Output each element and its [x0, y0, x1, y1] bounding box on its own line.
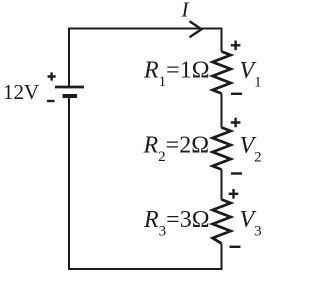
resistor R3: [213, 200, 231, 244]
current arrow head: [190, 21, 202, 37]
wire bottom: [68, 268, 223, 270]
minus sign below R2: [231, 172, 242, 174]
wire left upper: [68, 28, 70, 87]
svg-text:R1=1Ω: R1=1Ω: [143, 58, 210, 91]
svg-text:V1: V1: [240, 58, 262, 91]
resistor R1: [213, 52, 231, 94]
plus sign above R3: [229, 189, 239, 199]
wire top: [69, 28, 222, 30]
svg-text:R2=2Ω: R2=2Ω: [143, 133, 210, 166]
wire right segment R2-R3: [221, 170, 223, 200]
battery minus sign: [47, 100, 55, 102]
minus sign below R3: [230, 246, 241, 248]
wire right segment below R3: [221, 244, 223, 271]
minus sign below R1: [231, 93, 242, 95]
plus sign above R1: [231, 41, 241, 51]
svg-text:V3: V3: [240, 207, 262, 240]
wire right segment above R1: [221, 28, 223, 52]
svg-text:I: I: [181, 0, 190, 22]
wire right segment R1-R2: [221, 94, 223, 128]
plus sign above R2: [231, 118, 241, 128]
battery 12V negative plate: [63, 94, 78, 98]
svg-text:R3=3Ω: R3=3Ω: [143, 207, 210, 240]
wire left lower: [68, 98, 70, 271]
battery plus sign: [48, 72, 56, 80]
battery 12V positive plate: [55, 86, 84, 89]
svg-text:12V: 12V: [3, 80, 39, 104]
resistor R2: [213, 128, 231, 170]
svg-text:V2: V2: [240, 133, 262, 166]
